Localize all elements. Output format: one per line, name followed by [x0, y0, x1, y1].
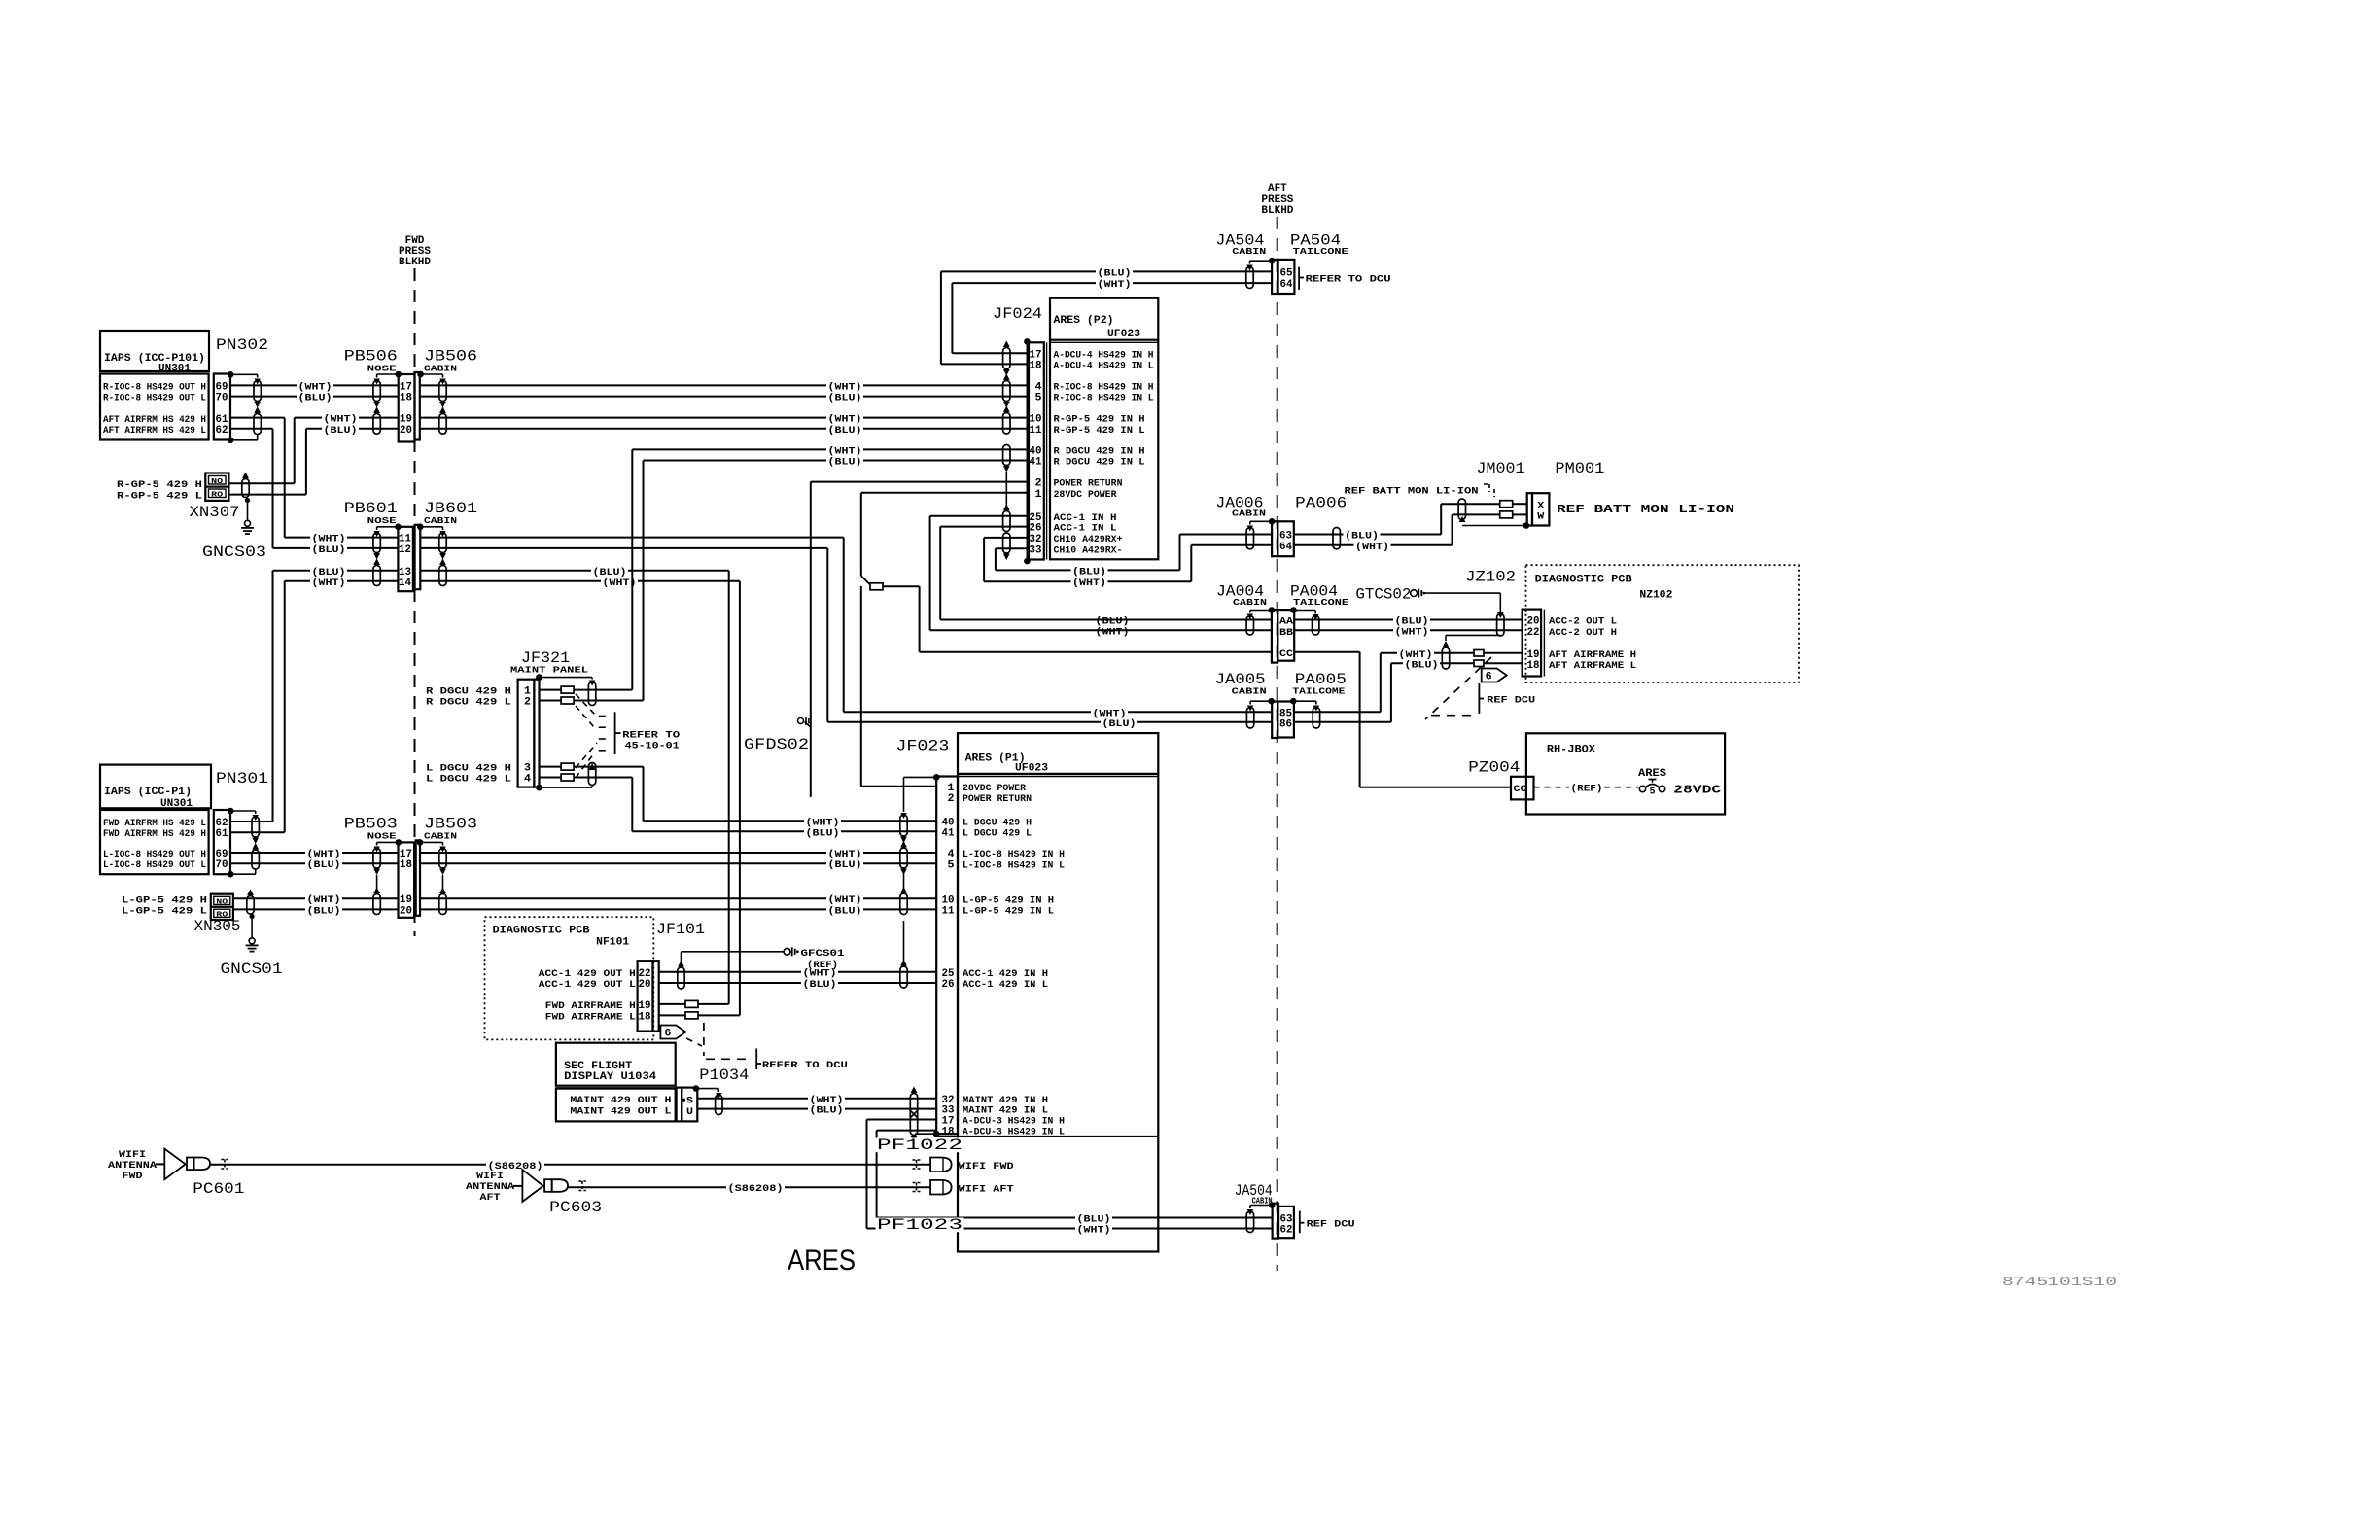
svg-text:25: 25	[942, 968, 955, 980]
wire JF101-20 (BLU) to JF023-26	[659, 982, 936, 984]
svg-text:26: 26	[1030, 523, 1042, 535]
svg-text:CC: CC	[1279, 648, 1294, 660]
box NF101 DIAGNOSTIC PCB (dotted)	[485, 917, 654, 1039]
wire JZ102-18 (BLU) from JA005-86	[1391, 662, 1474, 664]
svg-text:5: 5	[1035, 393, 1042, 404]
wire PB601-13 (BLU) left side from PN301-62	[273, 570, 399, 572]
svg-text:33: 33	[1030, 544, 1042, 556]
svg-text:ACC-2 OUT H: ACC-2 OUT H	[1549, 627, 1617, 639]
svg-text:R-IOC-8 HS429 OUT H: R-IOC-8 HS429 OUT H	[103, 381, 206, 393]
svg-text:(WHT): (WHT)	[1355, 542, 1389, 553]
svg-text:64: 64	[1279, 542, 1292, 553]
svg-text:GFDS02: GFDS02	[744, 736, 809, 753]
svg-text:WIFI FWD: WIFI FWD	[959, 1161, 1014, 1172]
svg-text:DIAGNOSTIC PCB: DIAGNOSTIC PCB	[493, 926, 590, 937]
shield XN305 drain	[247, 896, 254, 915]
wire splice to JA004-CC	[883, 585, 920, 587]
splice 28VDC tap	[861, 576, 870, 584]
wire PN301 bus hooks and shields	[227, 808, 234, 815]
svg-text:L-GP-5 429 H: L-GP-5 429 H	[122, 894, 207, 906]
svg-text:(BLU): (BLU)	[1096, 616, 1130, 628]
svg-text:(BLU): (BLU)	[1395, 616, 1429, 628]
svg-text:(WHT): (WHT)	[312, 577, 346, 589]
lug GFCS01	[784, 948, 790, 955]
svg-text:A-DCU-4 HS429 IN L: A-DCU-4 HS429 IN L	[1054, 361, 1154, 372]
shield JF024 left side pairs	[1003, 348, 1010, 369]
svg-text:L-IOC-8 HS429 IN L: L-IOC-8 HS429 IN L	[962, 859, 1065, 871]
svg-text:JF101: JF101	[656, 921, 705, 938]
svg-text:AFT: AFT	[1268, 183, 1287, 194]
svg-text:R-GP-5 429 IN H: R-GP-5 429 IN H	[1054, 414, 1145, 426]
connector JF023 pin column	[936, 777, 958, 1135]
wire FWD PRESS BLKHD dashed line	[414, 268, 416, 936]
lug GTCS02	[1411, 590, 1417, 597]
wire XN305-RO to PB503-20 (BLU)	[233, 908, 399, 910]
svg-text:22: 22	[1527, 627, 1540, 639]
ground GNCS01	[249, 938, 255, 944]
box NZ102 DIAGNOSTIC PCB (dotted)	[1526, 565, 1800, 682]
shield JF023 left pairs	[933, 774, 940, 781]
wire JF024-1 28VDC to splice	[861, 492, 1028, 494]
connector PB503/JB503 body	[399, 842, 415, 917]
wire JA006-64 left stub	[1191, 544, 1272, 546]
wire JF024-18 (BLU) to JA504-65	[940, 271, 942, 364]
shield JB601 cabin side	[417, 524, 424, 531]
connector PC601	[187, 1158, 194, 1171]
svg-text:AFT: AFT	[480, 1192, 501, 1204]
svg-text:14: 14	[399, 577, 411, 589]
connector JA504/PA504 top body	[1272, 260, 1277, 294]
box SEC FLIGHT DISPLAY U1034	[556, 1043, 676, 1086]
svg-text:18: 18	[1030, 361, 1042, 372]
svg-text:ACC-2 OUT L: ACC-2 OUT L	[1549, 616, 1617, 628]
svg-text:MAINT PANEL: MAINT PANEL	[510, 665, 588, 676]
wire JB506-17 to JF024-4 (WHT)	[420, 384, 1028, 386]
svg-text:41: 41	[942, 827, 955, 839]
wire JB503-20 to JF023-11 (BLU)	[420, 908, 936, 910]
symbol wifi tap aft	[913, 1183, 921, 1192]
svg-text:FWD AIRFRAME L: FWD AIRFRAME L	[545, 1012, 636, 1024]
svg-text:(WHT): (WHT)	[298, 381, 332, 393]
svg-text:W: W	[1537, 511, 1545, 523]
wire PN302-61 down to PB601-11	[230, 417, 285, 419]
svg-text:NZ102: NZ102	[1639, 590, 1672, 602]
svg-text:L-GP-5 429 L: L-GP-5 429 L	[122, 906, 207, 918]
wire PN302-62 down to PB601-12	[230, 428, 272, 430]
wire PZ004 (REF) dashed to ARES 28VDC	[1534, 787, 1570, 788]
wire JA006-63 (BLU) to PM001	[1294, 534, 1441, 536]
svg-text:(WHT): (WHT)	[1096, 627, 1130, 639]
svg-text:1: 1	[1035, 489, 1042, 501]
wire JA004-CC from splice	[920, 651, 1272, 653]
svg-text:28VDC POWER: 28VDC POWER	[1054, 489, 1118, 501]
wire JB506-20 to JF024-11 (BLU)	[420, 428, 1028, 430]
wire PM001 shield hook	[1523, 522, 1530, 529]
wire JF024-32 (WHT) to JA006-64	[984, 537, 1027, 539]
shield JA504 bottom	[1269, 1202, 1276, 1208]
svg-text:XN305: XN305	[194, 918, 241, 935]
svg-text:BLKHD: BLKHD	[399, 257, 431, 268]
svg-text:(BLU): (BLU)	[1405, 659, 1439, 671]
svg-text:RO: RO	[211, 491, 224, 499]
svg-text:POWER RETURN: POWER RETURN	[962, 793, 1032, 805]
svg-text:UF023: UF023	[1015, 763, 1048, 775]
svg-text:R DGCU 429 IN L: R DGCU 429 IN L	[1054, 457, 1145, 469]
connector PN301 pin column	[214, 810, 230, 874]
shield JA005 cabin side	[1268, 698, 1275, 705]
wire JB601-11 to JA005-85 (WHT)	[420, 537, 843, 539]
svg-text:(BLU): (BLU)	[1098, 267, 1132, 279]
label JF023-41 (BLU)	[804, 828, 841, 838]
wire JF024-40 (WHT) from JF321-1	[632, 448, 1027, 450]
connector JA006/PA006 body	[1272, 521, 1277, 556]
wire JF321-1 to JF024-40	[540, 689, 562, 691]
svg-text:85: 85	[1279, 708, 1292, 719]
shield JF023 MAINT/A-DCU group	[910, 1094, 917, 1136]
svg-text:JZ102: JZ102	[1465, 569, 1516, 586]
wire JF321 dashed refer marks	[599, 716, 610, 717]
splice JM001 upper	[1500, 501, 1513, 507]
svg-text:70: 70	[216, 393, 228, 404]
svg-text:PF1023: PF1023	[877, 1216, 962, 1234]
svg-text:GFCS01: GFCS01	[801, 948, 845, 960]
svg-text:45-10-01: 45-10-01	[625, 741, 680, 752]
svg-text:ARES: ARES	[1638, 768, 1666, 780]
svg-text:18: 18	[1527, 660, 1540, 672]
svg-text:(BLU): (BLU)	[828, 425, 862, 437]
wire JA005-85 (WHT) long run	[844, 711, 1272, 713]
svg-text:PN302: PN302	[216, 336, 268, 354]
svg-text:19: 19	[400, 414, 412, 426]
svg-text:17: 17	[400, 381, 412, 393]
connector JF024 pin column	[1029, 342, 1044, 559]
svg-text:(REF): (REF)	[1571, 784, 1603, 795]
symbol coax tap PC603	[578, 1181, 586, 1191]
svg-text:ACC-1 IN L: ACC-1 IN L	[1054, 523, 1117, 535]
svg-text:PC603: PC603	[549, 1199, 602, 1216]
connector PM001 body	[1527, 493, 1532, 525]
svg-text:(BLU): (BLU)	[307, 859, 341, 871]
box SEC FLIGHT DISPLAY signal box	[556, 1089, 676, 1122]
svg-text:61: 61	[216, 828, 228, 840]
connector JA005/PA005 body	[1272, 702, 1277, 739]
svg-text:U: U	[686, 1106, 693, 1118]
wire JA004-CC to PZ004	[1294, 651, 1359, 653]
svg-text:JF024: JF024	[993, 305, 1042, 323]
svg-text:28VDC: 28VDC	[1673, 784, 1721, 797]
shield JA004 cabin side	[1269, 607, 1276, 613]
connector JA004/PA004 body	[1272, 610, 1277, 663]
svg-text:(REF): (REF)	[807, 960, 838, 971]
flag 6 (NF101)	[660, 1026, 685, 1039]
svg-text:12: 12	[399, 544, 411, 556]
svg-text:ACC-1 429 IN L: ACC-1 429 IN L	[962, 979, 1048, 991]
connector PC603	[544, 1179, 552, 1192]
wire JA006-64 (WHT) to PM001	[1294, 544, 1452, 546]
svg-text:R-GP-5 429 IN L: R-GP-5 429 IN L	[1054, 425, 1145, 437]
label REFER TO DCU (NF101)	[755, 1049, 757, 1070]
svg-text:S: S	[686, 1096, 693, 1107]
wire P1034-U (BLU) to JF023-33	[697, 1108, 936, 1110]
svg-text:L-IOC-8 HS429 IN H: L-IOC-8 HS429 IN H	[962, 849, 1065, 860]
svg-text:JF023: JF023	[895, 738, 949, 755]
svg-text:REF BATT MON LI-ION: REF BATT MON LI-ION	[1345, 486, 1479, 498]
svg-text:CABIN: CABIN	[1232, 246, 1266, 257]
svg-text:IAPS (ICC-P1): IAPS (ICC-P1)	[104, 787, 192, 798]
svg-text:32: 32	[1030, 534, 1042, 545]
svg-text:(BLU): (BLU)	[828, 859, 862, 871]
svg-text:TAILCONE: TAILCONE	[1293, 246, 1348, 257]
svg-text:69: 69	[216, 381, 228, 393]
wire GTCS02 drain to shield	[1425, 592, 1500, 594]
wire PN301-62 up to PB601-13	[230, 821, 272, 822]
svg-text:20: 20	[400, 425, 412, 437]
svg-text:CH10 A429RX-: CH10 A429RX-	[1054, 544, 1123, 556]
shield XN307 drain	[242, 479, 249, 498]
svg-text:(BLU): (BLU)	[806, 827, 840, 839]
connector JF321 body	[518, 680, 535, 787]
shield PA004 tailcone side	[1290, 607, 1297, 613]
svg-text:(WHT): (WHT)	[324, 414, 358, 426]
svg-text:GTCS02: GTCS02	[1355, 586, 1411, 604]
svg-text:REF BATT MON LI-ION: REF BATT MON LI-ION	[1557, 503, 1734, 516]
wire JF024-41 (BLU) from JF321-2	[644, 460, 1028, 462]
wire PN301-61 up to PB601-14	[230, 831, 285, 833]
svg-text:DISPLAY U1034: DISPLAY U1034	[564, 1071, 656, 1083]
wire JF024-33 (BLU) to JA006-63	[996, 547, 1028, 549]
shield JB506 cabin side	[417, 371, 424, 378]
wire JF023-40 stub	[644, 820, 937, 822]
svg-text:REFER TO DCU: REFER TO DCU	[762, 1060, 848, 1071]
wire XN307-NO to PB506-19 (WHT)	[228, 482, 294, 484]
shield JA006 cabin side	[1269, 518, 1276, 525]
wire JF101-22 (WHT) to JF023-25	[659, 971, 936, 973]
svg-text:65: 65	[1280, 267, 1293, 279]
svg-text:2: 2	[524, 697, 531, 709]
svg-text:AFT AIRFRM HS 429 L: AFT AIRFRM HS 429 L	[103, 425, 206, 437]
svg-text:UN301: UN301	[160, 798, 192, 810]
svg-text:10: 10	[942, 894, 955, 906]
svg-text:PC601: PC601	[192, 1180, 244, 1198]
svg-text:ACC-1 429 OUT H: ACC-1 429 OUT H	[539, 968, 636, 980]
svg-text:20: 20	[1527, 616, 1540, 628]
svg-text:PA006: PA006	[1295, 495, 1347, 512]
svg-text:41: 41	[1030, 457, 1042, 469]
wire PN302-70 (BLU) to PB506-18	[230, 396, 399, 398]
shield P1034 pair	[693, 1085, 700, 1092]
svg-text:(BLU): (BLU)	[828, 393, 862, 404]
label REF DCU (bottom)	[1299, 1211, 1301, 1234]
wire PC603 to WIFI AFT (S86208)	[568, 1186, 930, 1188]
connector PB601/JB601 body	[398, 527, 413, 591]
svg-text:(BLU): (BLU)	[803, 979, 837, 991]
svg-text:L-GP-5 429 IN H: L-GP-5 429 IN H	[962, 894, 1054, 906]
label REFER TO DCU (top)	[1298, 267, 1300, 290]
svg-text:RH-JBOX: RH-JBOX	[1547, 745, 1595, 756]
connector PN301 IAPS (ICC-P1) UN301 title box	[100, 765, 211, 809]
svg-text:AFT AIRFRAME L: AFT AIRFRAME L	[1549, 660, 1636, 672]
svg-text:22: 22	[639, 968, 651, 980]
wire JF101-18 FWD AIRFRAME L	[659, 1014, 685, 1016]
connector XN307	[205, 473, 228, 501]
svg-text:70: 70	[216, 859, 228, 871]
svg-text:R-IOC-8 HS429 OUT L: R-IOC-8 HS429 OUT L	[103, 393, 206, 404]
svg-text:61: 61	[216, 414, 228, 426]
svg-text:NOSE: NOSE	[367, 515, 397, 526]
svg-text:(BLU): (BLU)	[1102, 718, 1137, 730]
wire JA004-BB to JZ102-22 (WHT)	[1294, 629, 1522, 631]
svg-text:PN301: PN301	[216, 770, 268, 787]
shield JM001 pair	[1458, 499, 1465, 520]
svg-text:MAINT 429 OUT L: MAINT 429 OUT L	[570, 1105, 671, 1117]
shield PA005 tailcone side	[1290, 698, 1297, 705]
svg-text:(WHT): (WHT)	[307, 894, 341, 906]
wire JB503-17 to JF023-4 (WHT)	[420, 852, 936, 854]
connector PN302 pin column	[214, 374, 230, 440]
svg-text:FWD AIRFRM HS 429 H: FWD AIRFRM HS 429 H	[103, 828, 206, 840]
svg-text:L DGCU 429 L: L DGCU 429 L	[962, 827, 1032, 839]
svg-text:(WHT): (WHT)	[1077, 1225, 1111, 1237]
svg-text:PZ004: PZ004	[1468, 759, 1520, 777]
label PF1023	[876, 1218, 964, 1233]
svg-text:26: 26	[942, 979, 955, 991]
svg-text:NOSE: NOSE	[367, 364, 397, 374]
svg-text:FWD AIRFRM HS 429 L: FWD AIRFRM HS 429 L	[103, 818, 206, 829]
svg-text:R-IOC-8 HS429 IN L: R-IOC-8 HS429 IN L	[1054, 393, 1154, 404]
wire AFT PRESS BLKHD dashed line	[1277, 217, 1278, 1271]
svg-text:CABIN: CABIN	[1233, 597, 1267, 608]
wire JB601-12 to JA005-86 (BLU)	[420, 547, 827, 549]
shield PA006 tailcone side	[1333, 528, 1340, 549]
wire PB601-12 (BLU) left side	[273, 547, 399, 549]
svg-text:86: 86	[1279, 719, 1292, 731]
svg-text:6: 6	[1486, 672, 1492, 683]
splice JM001 lower	[1500, 511, 1513, 518]
wire JF024-18 stub	[941, 363, 1028, 365]
wire JA004-AA to JZ102-20 (BLU)	[1294, 619, 1522, 621]
svg-text:CABIN: CABIN	[424, 515, 457, 526]
svg-text:(BLU): (BLU)	[1077, 1214, 1111, 1226]
connector PB506/JB506 body	[399, 374, 415, 442]
svg-text:(BLU): (BLU)	[810, 1105, 844, 1117]
svg-text:PF1022: PF1022	[877, 1137, 962, 1154]
shield JB503 cabin side	[417, 839, 424, 846]
svg-text:CABIN: CABIN	[1232, 686, 1267, 697]
svg-text:69: 69	[216, 849, 228, 860]
wire JF024-17 stub	[952, 352, 1027, 354]
svg-text:(BLU): (BLU)	[298, 393, 332, 404]
wire JA005-86 (BLU) long run	[827, 721, 1272, 723]
wire PB601-11 (WHT) left side	[285, 537, 399, 539]
wire JF024-17 (WHT) to JA504-64	[951, 283, 953, 353]
svg-text:NF101: NF101	[596, 937, 629, 949]
wire JF321-4 to JF023-41	[540, 777, 562, 779]
svg-text:AA: AA	[1279, 616, 1294, 628]
connector JF101 pin column	[638, 961, 653, 1031]
wire JF023 internal separator	[936, 1136, 1158, 1137]
svg-text:5: 5	[1650, 787, 1656, 798]
connector PN302 IAPS (ICC-P101) UN301 title box	[100, 331, 209, 371]
wire JF023-18 (BLU) to JA504-63	[877, 1130, 937, 1132]
wire JF023 bus dots	[933, 774, 940, 781]
svg-text:18: 18	[400, 393, 412, 404]
wire REF DCU dashed (right)	[1425, 657, 1491, 719]
wire JB601-13 (BLU) to NF101 vertical	[420, 570, 728, 572]
svg-text:BLKHD: BLKHD	[1261, 205, 1293, 217]
wire XN305-NO to PB503-19 (WHT)	[233, 897, 399, 899]
svg-text:(BLU): (BLU)	[1345, 531, 1379, 542]
svg-text:REF DCU: REF DCU	[1487, 695, 1535, 707]
svg-text:(S86208): (S86208)	[728, 1183, 784, 1195]
wire JB506-18 to JF024-5 (BLU)	[420, 396, 1028, 398]
svg-text:TAILCOME: TAILCOME	[1292, 686, 1345, 697]
svg-text:20: 20	[639, 979, 651, 991]
svg-text:ACC-1 429 IN H: ACC-1 429 IN H	[962, 968, 1048, 980]
label REFER TO 45-10-01	[614, 712, 616, 754]
svg-text:AFT AIRFRM HS 429 H: AFT AIRFRM HS 429 H	[103, 414, 206, 426]
wire JF023-17 (WHT) to JA504-62	[867, 1119, 937, 1121]
wire JF023-41 stub	[632, 830, 936, 832]
svg-text:10: 10	[1030, 414, 1042, 426]
connector PN302 signal box	[100, 374, 209, 440]
svg-text:BB: BB	[1279, 627, 1294, 639]
shield PB503 nose side	[396, 839, 402, 846]
svg-text:PM001: PM001	[1555, 460, 1604, 477]
wire JB601-14 (WHT) to NF101 vertical	[420, 580, 740, 582]
wire JF024-2 POWER RETURN to JF023-2	[811, 481, 1028, 483]
svg-text:CABIN: CABIN	[424, 364, 457, 374]
wire PN301-70 (BLU) to PB503-18	[230, 862, 398, 864]
svg-text:CABIN: CABIN	[424, 831, 457, 842]
svg-text:XN307: XN307	[190, 504, 240, 521]
box JF023 ARES (P1) UF023	[958, 733, 1158, 1251]
svg-text:(WHT): (WHT)	[828, 381, 862, 393]
svg-text:11: 11	[942, 906, 955, 918]
svg-text:R-GP-5 429 H: R-GP-5 429 H	[117, 479, 202, 491]
svg-text:8745101S10: 8745101S10	[2002, 1276, 2117, 1289]
svg-text:62: 62	[1280, 1225, 1293, 1237]
wire PN302-69 (WHT) to PB506-17	[230, 384, 399, 386]
svg-text:REF DCU: REF DCU	[1307, 1219, 1355, 1231]
wire JZ102-19 (WHT) from JA005-85	[1381, 652, 1474, 654]
svg-text:(BLU): (BLU)	[828, 457, 862, 469]
wire JF024 bus	[1026, 341, 1028, 561]
wire JF101-19 FWD AIRFRAME H	[659, 1003, 685, 1005]
ground GNCS03	[245, 520, 251, 526]
svg-text:ARES: ARES	[787, 1244, 856, 1277]
svg-text:(BLU): (BLU)	[312, 544, 346, 556]
shield JA504 top	[1269, 258, 1276, 264]
svg-text:62: 62	[216, 818, 228, 829]
wire PN302 bus hooks and shields	[227, 371, 234, 378]
shield PB506 nose side	[395, 371, 402, 378]
connector JA504 bottom body	[1273, 1204, 1278, 1239]
wire JF024-26 to JA004-AA	[940, 526, 1027, 528]
svg-text:GNCS03: GNCS03	[202, 543, 266, 561]
svg-text:ARES (P2): ARES (P2)	[1054, 315, 1114, 327]
svg-text:R-GP-5 429 L: R-GP-5 429 L	[117, 491, 202, 503]
svg-text:R DGCU 429 L: R DGCU 429 L	[426, 697, 511, 709]
svg-text:(WHT): (WHT)	[312, 534, 346, 545]
svg-text:GNCS01: GNCS01	[221, 961, 283, 978]
symbol wifi tap fwd	[913, 1160, 921, 1169]
shield JF101 ACC-1 pair + GFCS01	[678, 967, 684, 989]
svg-text:L-IOC-8 HS429 OUT L: L-IOC-8 HS429 OUT L	[103, 859, 206, 871]
svg-text:(WHT): (WHT)	[1072, 577, 1106, 589]
svg-text:4: 4	[948, 849, 955, 860]
svg-text:NOSE: NOSE	[367, 831, 397, 842]
svg-text:TAILCONE: TAILCONE	[1293, 597, 1348, 608]
